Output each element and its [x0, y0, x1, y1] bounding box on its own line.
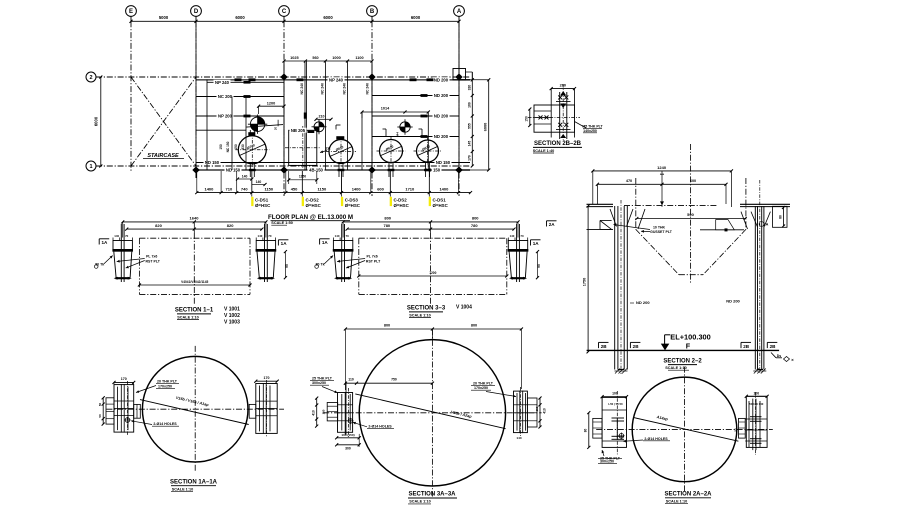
svg-text:2A: 2A: [549, 222, 556, 227]
svg-text:1750: 1750: [583, 278, 587, 286]
svg-text:FLOOR PLAN @ EL.13.000 M: FLOOR PLAN @ EL.13.000 M: [268, 214, 353, 221]
svg-text:160: 160: [467, 102, 471, 108]
svg-text:140: 140: [257, 234, 262, 238]
svg-text:Ø=HSC: Ø=HSC: [306, 203, 322, 208]
svg-text:150: 150: [535, 406, 539, 411]
svg-text:1000: 1000: [332, 56, 340, 60]
svg-text:1710: 1710: [405, 187, 415, 192]
svg-text:1200: 1200: [429, 271, 436, 275]
svg-text:410: 410: [542, 408, 546, 414]
svg-text:C-DS2: C-DS2: [394, 197, 408, 202]
svg-text:2-Ø14 HOLES: 2-Ø14 HOLES: [368, 424, 392, 428]
svg-text:6000: 6000: [323, 15, 333, 20]
svg-text:RST PLT: RST PLT: [146, 259, 161, 263]
svg-text:20 THK PLT: 20 THK PLT: [157, 380, 178, 384]
svg-text:70: 70: [125, 234, 129, 238]
svg-text:Ø=HSC: Ø=HSC: [255, 203, 271, 208]
svg-text:1: 1: [89, 164, 92, 170]
svg-text:170: 170: [467, 155, 471, 161]
svg-text:444: 444: [396, 132, 400, 137]
svg-text:C-DS3: C-DS3: [345, 197, 359, 202]
svg-text:SECTION 3A–3A: SECTION 3A–3A: [408, 492, 456, 498]
svg-text:6000: 6000: [411, 15, 421, 20]
svg-text:300x250: 300x250: [600, 459, 614, 463]
svg-text:170x250: 170x250: [158, 385, 172, 389]
svg-text:780: 780: [471, 223, 478, 228]
svg-text:SECTION 1A–1A: SECTION 1A–1A: [170, 479, 218, 485]
svg-text:ND 150: ND 150: [226, 168, 241, 173]
svg-text:300: 300: [345, 446, 351, 450]
svg-text:555: 555: [467, 123, 471, 129]
svg-text:820: 820: [227, 223, 234, 228]
svg-text:SECTION 2A–2A: SECTION 2A–2A: [664, 491, 712, 497]
svg-text:NC 240: NC 240: [300, 83, 304, 95]
svg-text:NC 240: NC 240: [320, 83, 324, 95]
svg-text:50: 50: [734, 428, 738, 432]
svg-text:SCALE 1:10: SCALE 1:10: [665, 366, 687, 370]
svg-text:145: 145: [467, 141, 471, 147]
svg-text:800: 800: [384, 324, 390, 328]
svg-text:SCALE 1:10: SCALE 1:10: [172, 487, 194, 491]
svg-text:PL 7x6: PL 7x6: [366, 255, 377, 259]
svg-text:330: 330: [241, 144, 245, 150]
svg-text:1150: 1150: [318, 187, 327, 192]
svg-text:80: 80: [778, 215, 782, 219]
svg-text:5000: 5000: [159, 15, 169, 20]
svg-text:2B: 2B: [633, 344, 640, 349]
svg-text:NC 200: NC 200: [218, 94, 233, 99]
svg-text:50 150 140: 50 150 140: [749, 402, 763, 406]
svg-text:740: 740: [241, 187, 248, 192]
svg-text:25 THK PLT: 25 THK PLT: [312, 376, 333, 380]
svg-text:780: 780: [383, 223, 390, 228]
svg-text:170: 170: [121, 377, 127, 381]
svg-text:1200: 1200: [267, 101, 275, 105]
svg-text:SCALE 1:10: SCALE 1:10: [666, 500, 688, 504]
svg-text:410: 410: [312, 410, 316, 416]
svg-text:D: D: [194, 9, 199, 15]
svg-text:70: 70: [268, 234, 272, 238]
svg-text:NP 240: NP 240: [329, 77, 344, 82]
svg-text:140: 140: [242, 175, 248, 179]
svg-text:820: 820: [155, 223, 162, 228]
svg-text:6000: 6000: [94, 116, 99, 126]
svg-text:70: 70: [345, 234, 349, 238]
svg-text:ND 200: ND 200: [434, 114, 449, 119]
svg-text:SCALE 1:10: SCALE 1:10: [409, 500, 431, 504]
svg-text:800: 800: [384, 216, 391, 221]
svg-text:140: 140: [516, 436, 521, 440]
svg-text:SCALE 1:10: SCALE 1:10: [409, 313, 431, 317]
svg-text:1014: 1014: [381, 107, 390, 111]
svg-text:1150: 1150: [264, 187, 273, 192]
svg-text:E: E: [129, 9, 133, 15]
svg-text:600: 600: [377, 187, 384, 192]
svg-text:EL+100.300: EL+100.300: [670, 332, 710, 341]
svg-text:2A: 2A: [764, 222, 769, 226]
svg-text:1240: 1240: [657, 165, 667, 170]
svg-text:2-Ø14 HOLES: 2-Ø14 HOLES: [153, 422, 177, 426]
svg-text:C-DS1: C-DS1: [433, 197, 447, 202]
svg-text:20: 20: [273, 127, 277, 131]
svg-text:C: C: [282, 9, 287, 15]
svg-text:Ø=HSC: Ø=HSC: [394, 203, 410, 208]
svg-text:NP 200: NP 200: [218, 114, 233, 119]
svg-text:170x250: 170x250: [474, 386, 488, 390]
svg-text:150: 150: [322, 409, 326, 414]
svg-text:2: 2: [89, 75, 92, 81]
svg-text:Ø=HSC: Ø=HSC: [433, 203, 449, 208]
svg-text:140: 140: [335, 234, 340, 238]
svg-text:V4041/V4042/1145: V4041/V4042/1145: [181, 280, 208, 284]
svg-text:6000: 6000: [235, 15, 245, 20]
svg-text:GUSSET PLT: GUSSET PLT: [650, 230, 673, 234]
svg-text:ND 200: ND 200: [434, 134, 449, 139]
svg-text:SCALE 1:10: SCALE 1:10: [177, 315, 199, 319]
svg-text:1640: 1640: [190, 216, 200, 221]
svg-text:200: 200: [560, 84, 566, 88]
svg-text:450: 450: [291, 187, 298, 192]
svg-text:4B-150: 4B-150: [309, 168, 323, 173]
svg-text:140: 140: [510, 234, 515, 238]
svg-text:100 (150): 100 (150): [341, 433, 354, 437]
svg-text:320: 320: [467, 85, 471, 91]
svg-text:SCALE 1:40: SCALE 1:40: [533, 149, 555, 153]
svg-text:V 1004: V 1004: [456, 305, 472, 311]
svg-text:Ø=HSC: Ø=HSC: [345, 203, 361, 208]
svg-text:1400: 1400: [204, 187, 214, 192]
svg-text:V 1001: V 1001: [224, 307, 240, 313]
svg-text:10 THK: 10 THK: [653, 225, 666, 229]
svg-text:NC 240: NC 240: [343, 83, 347, 95]
svg-text:560: 560: [312, 56, 318, 60]
svg-text:210: 210: [319, 114, 325, 118]
svg-text:2B: 2B: [770, 344, 777, 349]
svg-text:150: 150: [525, 116, 529, 122]
svg-text:1025: 1025: [290, 56, 298, 60]
svg-text:2B: 2B: [601, 344, 608, 349]
svg-text:SECTION 1–1: SECTION 1–1: [175, 308, 214, 314]
svg-text:20 THK PLT: 20 THK PLT: [473, 381, 494, 385]
svg-text:NC 240: NC 240: [366, 83, 370, 95]
svg-text:SECTION 3–3: SECTION 3–3: [407, 306, 446, 312]
svg-text:L50 | 50 50: L50 | 50 50: [608, 402, 623, 406]
svg-text:ND 200: ND 200: [434, 77, 449, 82]
svg-text:1400: 1400: [439, 187, 449, 192]
svg-text:SECTION 2B–2B: SECTION 2B–2B: [534, 141, 582, 147]
svg-text:150: 150: [234, 144, 238, 150]
svg-text:80: 80: [583, 429, 587, 433]
svg-text:600: 600: [690, 179, 696, 183]
svg-text:50: 50: [98, 403, 102, 407]
svg-text:ND 200: ND 200: [636, 300, 650, 305]
svg-text:1A: 1A: [533, 241, 540, 246]
svg-text:470: 470: [626, 179, 632, 183]
svg-text:100: 100: [612, 392, 618, 396]
svg-text:140x250: 140x250: [583, 129, 597, 133]
svg-text:6000: 6000: [483, 123, 487, 131]
svg-text:170: 170: [264, 376, 270, 380]
svg-text:710: 710: [226, 187, 233, 192]
svg-text:140: 140: [256, 180, 262, 184]
svg-text:300x250: 300x250: [312, 381, 326, 385]
svg-text:100: 100: [753, 391, 759, 395]
svg-text:750: 750: [391, 378, 397, 382]
svg-text:B: B: [370, 9, 375, 15]
svg-text:C-DS1: C-DS1: [255, 197, 269, 202]
svg-text:2-Ø14 HOLES: 2-Ø14 HOLES: [644, 437, 668, 441]
svg-text:V 1002: V 1002: [224, 313, 240, 319]
svg-text:RST PLT: RST PLT: [366, 259, 381, 263]
svg-text:C-DS2: C-DS2: [306, 197, 320, 202]
svg-text:590: 590: [687, 212, 694, 217]
svg-text:NP 240: NP 240: [215, 80, 230, 85]
svg-text:150: 150: [219, 144, 223, 150]
svg-text:1A: 1A: [281, 241, 288, 246]
svg-text:NC 150: NC 150: [226, 141, 230, 152]
svg-text:ND 200: ND 200: [434, 93, 449, 98]
svg-text:140: 140: [114, 234, 119, 238]
svg-text:V 1003: V 1003: [224, 320, 240, 326]
svg-text:1400: 1400: [352, 187, 362, 192]
svg-text:1100: 1100: [355, 56, 363, 60]
svg-text:SCALE 1:50: SCALE 1:50: [271, 221, 293, 225]
svg-text:1A: 1A: [322, 240, 329, 245]
svg-text:A: A: [457, 9, 462, 15]
svg-text:800: 800: [471, 324, 477, 328]
svg-text:PL 7x6: PL 7x6: [146, 255, 157, 259]
svg-text:F: F: [686, 341, 691, 350]
svg-text:70: 70: [520, 234, 524, 238]
svg-text:SECTION 2–2: SECTION 2–2: [663, 358, 702, 364]
svg-text:50: 50: [98, 414, 102, 418]
svg-text:ND 200: ND 200: [726, 299, 740, 304]
svg-text:Ds: Ds: [777, 354, 782, 358]
svg-text:1A: 1A: [101, 240, 108, 245]
svg-text:110: 110: [348, 378, 354, 382]
svg-text:NB 205: NB 205: [291, 128, 306, 133]
svg-text:ND 150: ND 150: [436, 160, 451, 165]
svg-text:2B: 2B: [743, 344, 750, 349]
svg-text:800: 800: [472, 216, 479, 221]
